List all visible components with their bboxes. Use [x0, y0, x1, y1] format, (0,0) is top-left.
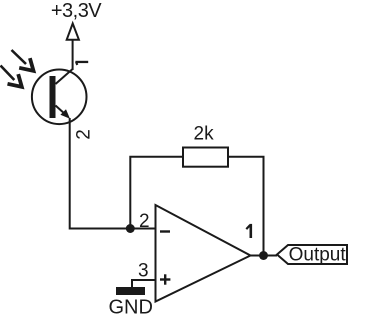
wire op-amp output — [251, 255, 278, 257]
svg-text:GND: GND — [109, 297, 153, 319]
svg-text:2: 2 — [74, 129, 95, 140]
feedback wire right: resistor down to output node — [228, 157, 264, 256]
op-amp inverting marker - — [160, 230, 170, 232]
svg-text:+3,3V: +3,3V — [51, 0, 102, 22]
wire emitter down and right to node — [70, 118, 156, 229]
output flag — [277, 245, 347, 264]
svg-text:2: 2 — [139, 211, 150, 232]
pin label 1 (collector, rotated digit) — [75, 61, 88, 65]
phototransistor Q1 — [32, 69, 87, 124]
svg-text:Output: Output — [289, 245, 347, 266]
feedback wire left: node up to resistor — [130, 157, 183, 229]
svg-text:2k: 2k — [194, 124, 215, 145]
ground bar — [116, 287, 145, 295]
junction node inverting input — [126, 224, 135, 233]
light arrow 2 — [1, 66, 22, 87]
resistor R1 (2k) — [183, 148, 228, 167]
light arrow 1 — [12, 50, 34, 71]
power symbol arrow — [67, 24, 79, 40]
wire pin3 to ground — [132, 280, 156, 288]
wire collector to power — [72, 40, 74, 70]
op-amp non-inverting marker + — [160, 274, 170, 284]
pin label 1 (op-amp output) — [246, 224, 252, 238]
op-amp U1 — [156, 205, 251, 302]
junction node output — [259, 251, 268, 260]
svg-text:3: 3 — [138, 261, 149, 282]
